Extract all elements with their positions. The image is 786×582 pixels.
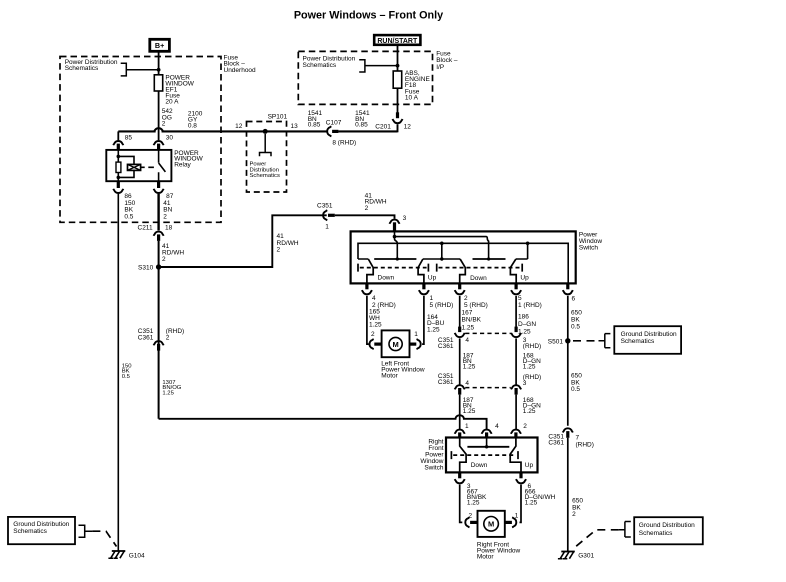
svg-text:5 (RHD): 5 (RHD) (430, 302, 454, 309)
power window switch box (351, 231, 576, 283)
switch pin 5 male pin (514, 283, 517, 289)
svg-text:Relay: Relay (174, 162, 191, 169)
svg-text:1.25: 1.25 (463, 364, 476, 371)
wire row2 down to RF switch pin 2 (515, 395, 517, 430)
wire C351 to switch pin 3 (335, 215, 395, 219)
wire row2 down to RF switch pin 1 (459, 395, 461, 430)
C351 male pin (328, 214, 335, 217)
LF down switch arm (pin 4) (367, 259, 373, 283)
wire label 666 D-GN/WH 1.25 (525, 489, 556, 507)
svg-text:1.25: 1.25 (525, 499, 538, 506)
relay pin 87 connector cup (154, 189, 164, 193)
svg-text:Ground Distribution: Ground Distribution (639, 522, 695, 529)
svg-text:167: 167 (462, 310, 473, 317)
svg-text:3: 3 (523, 380, 527, 387)
svg-text:1.25: 1.25 (523, 408, 536, 415)
svg-text:Schematics: Schematics (639, 530, 673, 537)
svg-text:1.25: 1.25 (369, 321, 382, 328)
svg-text:0.85: 0.85 (355, 122, 368, 129)
wire pin 2 down to C351 row1 (459, 296, 461, 327)
RF motor symbol (484, 517, 499, 532)
svg-text:BK: BK (571, 317, 580, 324)
svg-text:Ground Distribution: Ground Distribution (13, 521, 69, 528)
right front power window switch box (446, 438, 538, 473)
row1 C351 male pin (left) (458, 327, 461, 333)
right front power window motor label (477, 542, 521, 561)
wire B+ to fuse EF1 (158, 52, 160, 75)
C107 male pin (332, 130, 338, 133)
svg-text:C361: C361 (548, 440, 564, 447)
svg-text:Motor: Motor (381, 373, 398, 380)
wire RUN/START down to fuse F18 (397, 45, 399, 71)
wire pin 1 down to LF motor (422, 296, 424, 344)
wire label 667 BN/BK 1.25 (467, 489, 487, 507)
svg-text:C107: C107 (326, 119, 342, 126)
RF switch pin 1 connector cup (455, 430, 465, 434)
RF switch pin 3 connector cup (455, 479, 465, 483)
svg-text:13: 13 (291, 123, 299, 130)
C201 connector cup (393, 119, 403, 123)
wire pin 4 down to LF motor (367, 296, 369, 344)
C211 connector cup (154, 232, 164, 236)
label 1541 BN 0.85 (left of C107) (308, 110, 323, 129)
svg-text:1.25: 1.25 (462, 325, 475, 332)
row1 C351 male pin (right) (514, 327, 517, 333)
switch internal feed from pin 3 (394, 231, 396, 236)
relay pin 86 connector cup (113, 189, 123, 193)
wire label 41 RD/WH 2 (below C211) (162, 243, 184, 263)
right front power window switch label (420, 438, 444, 471)
wire C351 pin 7 down to G301 (567, 438, 569, 552)
label C351 C361 (1307 branch) (138, 328, 154, 341)
svg-text:7: 7 (576, 435, 580, 442)
relay pin 30 male pin (157, 144, 160, 150)
wire label 168 D-GN 1.25 (between rows) (523, 353, 541, 371)
power window switch label (579, 232, 602, 252)
relay feed horizontal wire (pin85 to C201) with hop over fuse wire (118, 128, 326, 131)
fuse block I/P label (436, 51, 458, 71)
fuse F18 label (405, 70, 431, 101)
contact bar 2 (473, 258, 506, 260)
svg-text:G301: G301 (578, 552, 594, 559)
wire C201 down to corner (397, 124, 399, 132)
wire label 164 D-BU 1.25 (427, 314, 445, 334)
C351/C361 male pin (1307 branch) (157, 344, 160, 351)
row2 male pin (left) (458, 388, 461, 395)
RF switch pin 4 connector cup (482, 430, 492, 434)
svg-text:S501: S501 (548, 338, 564, 345)
RF bar feed node (485, 445, 488, 448)
relay actuator dashed link (141, 166, 154, 168)
svg-text:1 (RHD): 1 (RHD) (518, 302, 542, 309)
power distribution schematics note (I/P) (303, 55, 356, 68)
C211 male pin (157, 234, 160, 241)
dashed leader G301 to ground distribution note (574, 530, 619, 548)
svg-text:1: 1 (465, 423, 469, 430)
label pin 5 / 1 (RHD) (518, 295, 542, 309)
svg-text:1: 1 (414, 331, 418, 338)
feed jog from pin3 node over ground bus to bar 1 (395, 237, 398, 259)
ground G301 symbol (558, 552, 575, 559)
fuse block underhood dashed box (60, 57, 221, 223)
label 1541 BN 0.85 (right of C107) (355, 110, 370, 129)
svg-text:Underhood: Underhood (224, 67, 257, 74)
row2 connector cup (left) (455, 385, 465, 389)
RF switch pin 6 male pin (519, 472, 522, 478)
wire C211 down through S310 to corner (158, 241, 160, 419)
relay coil branch junction nodes (117, 155, 121, 159)
junction node at PDS tap (157, 68, 161, 72)
relay pin 85 male pin (117, 144, 120, 150)
ground bus drops to switch pivots (442, 243, 528, 259)
C351/C361 connector cup (1307 branch) (154, 341, 164, 345)
dashed leader S501 to ground distribution note (573, 340, 599, 342)
switch pin 2 connector cup (455, 290, 465, 294)
RF switch pin 2 connector cup (511, 430, 521, 434)
LF motor pin 2 male pin (374, 343, 382, 346)
svg-text:Schematics: Schematics (303, 62, 337, 69)
left front power window motor label (381, 361, 425, 380)
fuse block I/P dashed box (298, 51, 432, 104)
svg-text:(RHD): (RHD) (523, 343, 541, 350)
RF motor pin 1 male pin (505, 521, 512, 524)
SP101 dashed box (247, 122, 287, 193)
wire label 41 RD/WH 2 (to switch pin 3) (365, 192, 387, 211)
wire pin 6 down through S501 to C351 pin 7 (567, 296, 569, 426)
svg-text:0.5: 0.5 (571, 324, 580, 331)
wire label 187 BN 1.25 (below row2) (463, 397, 476, 415)
C107 connector cup (327, 126, 331, 136)
wire label 650 BK 0.5 (above S501) (571, 310, 582, 331)
svg-text:4: 4 (465, 380, 469, 387)
wire label 168 D-GN 1.25 (below row2) (523, 397, 541, 415)
svg-text:C201: C201 (375, 123, 391, 130)
svg-text:Motor: Motor (477, 553, 494, 560)
svg-text:Schematics: Schematics (65, 65, 99, 72)
svg-text:0.8: 0.8 (188, 123, 197, 130)
wire label 1307 BN/OG 1.25 (162, 380, 181, 397)
svg-text:Schematics: Schematics (250, 173, 281, 179)
label C351 C361 (row2) (438, 373, 454, 386)
svg-text:2: 2 (277, 247, 281, 254)
svg-text:Down: Down (378, 274, 395, 281)
splice SP101 node (263, 129, 268, 134)
switch pin 1 male pin (422, 283, 425, 289)
svg-text:5: 5 (518, 295, 522, 302)
svg-text:Power Windows – Front Only: Power Windows – Front Only (294, 9, 443, 21)
svg-text:2: 2 (464, 295, 468, 302)
svg-text:S310: S310 (138, 265, 154, 272)
left front power window motor box (382, 330, 410, 357)
wire S310 branch right and up to C351 (159, 215, 327, 267)
svg-text:C361: C361 (438, 379, 454, 386)
switch pin 6 connector cup (563, 290, 573, 294)
svg-text:C351: C351 (317, 202, 333, 209)
relay coil branch wires (118, 150, 134, 181)
svg-text:Down: Down (470, 275, 487, 282)
svg-text:B+: B+ (155, 41, 164, 50)
wire corner down to relay pin 85 (117, 131, 119, 140)
LF motor pin 1 connector cup (417, 339, 421, 349)
wire relay pin 87 down to C211 (157, 194, 159, 231)
svg-text:186: 186 (518, 313, 529, 320)
label (RHD) 2 (1307 branch) (166, 328, 184, 341)
svg-text:1.25: 1.25 (427, 327, 440, 334)
fuse F18 symbol (393, 71, 402, 88)
switch pin 1 connector cup (419, 290, 429, 294)
relay suppression resistor (116, 162, 121, 172)
bracket to ground distribution note (G104) (79, 525, 93, 537)
wire label 542 OG 2 (162, 108, 173, 127)
fuse block underhood label (224, 54, 257, 73)
wire fuse EF1 down to relay pin 30 (158, 91, 160, 140)
svg-text:20 A: 20 A (165, 99, 179, 106)
RF switch pin 1 male pin (458, 432, 461, 438)
row2 connector dashed tie (465, 387, 511, 389)
switch pin 3 connector cup (390, 220, 400, 224)
svg-text:Schematics: Schematics (13, 528, 47, 535)
svg-text:10 A: 10 A (405, 94, 419, 101)
label C351 C361 (pin 7) (548, 433, 564, 446)
RF motor pin 2 connector cup (465, 517, 469, 527)
svg-text:2: 2 (166, 335, 170, 342)
svg-text:D–GN: D–GN (518, 321, 536, 328)
svg-text:M: M (392, 340, 398, 349)
svg-text:12: 12 (404, 124, 412, 131)
label 3 (RHD) (row1 right) (523, 337, 541, 350)
switch pin 2 male pin (458, 283, 461, 289)
label C351 C361 (row1) (438, 337, 454, 350)
wire label 165 WH 1.25 (369, 309, 382, 329)
svg-text:30: 30 (166, 135, 174, 142)
svg-text:2: 2 (572, 511, 576, 518)
LF motor pin 2 connector cup (369, 339, 373, 349)
relay pin 30 connector cup (154, 141, 164, 145)
ground G104 symbol (108, 551, 125, 558)
svg-text:1.25: 1.25 (523, 364, 536, 371)
wire label 150 BK 0.5 (left column) (122, 363, 133, 379)
junction node pin 3 bus (393, 235, 397, 239)
relay pin 87 male pin (157, 181, 160, 188)
svg-text:87: 87 (166, 193, 174, 200)
switch pin 5 connector cup (511, 290, 521, 294)
row1 connector dashed tie (465, 332, 511, 334)
svg-text:6: 6 (572, 296, 576, 303)
svg-text:SP101: SP101 (268, 114, 288, 121)
svg-text:4: 4 (495, 423, 499, 430)
svg-text:I/P: I/P (436, 64, 444, 71)
svg-text:BN: BN (163, 207, 172, 214)
svg-text:Schematics: Schematics (621, 338, 655, 345)
pivot junction node (440, 257, 443, 260)
wire label 41 BN 2 (pin 87) (163, 200, 172, 220)
ground distribution schematics box (G104) (8, 517, 75, 544)
C351/C361 male pin (pin 7) (566, 431, 569, 438)
RF switch pin 2 male pin (514, 432, 517, 438)
splice S310 node (156, 264, 161, 269)
svg-text:2: 2 (371, 331, 375, 338)
RF internal down arm (pin1 to pin3) (460, 438, 466, 473)
label pin 4 / 2 (RHD) (372, 295, 396, 309)
svg-text:Up: Up (525, 462, 534, 469)
C351 connector cup (323, 210, 327, 220)
RF down switch arm (pin 2) (460, 259, 466, 283)
svg-text:2: 2 (162, 120, 166, 127)
svg-text:1.25: 1.25 (162, 391, 174, 397)
feed drop to bar 2 (488, 243, 490, 259)
wire fuse F18 down to C201 (397, 88, 399, 112)
svg-text:C361: C361 (138, 335, 154, 342)
switch pin 3 male pin (393, 222, 396, 232)
RF motor pin 1 connector cup (512, 517, 516, 527)
power window relay box (106, 150, 171, 181)
svg-text:C211: C211 (138, 225, 153, 232)
contact bar 1 (374, 258, 416, 260)
ground bus junction nodes (440, 242, 444, 246)
dashed leader to G104 (92, 531, 116, 546)
bracket to ground distribution note (G301) (619, 522, 631, 538)
wire row1 to row2 (left) (459, 338, 461, 384)
wire row1 to row2 (right) (515, 338, 517, 384)
RF switch pin 4 male pin (485, 432, 488, 438)
wire label 187 BN 1.25 (between rows) (463, 353, 476, 371)
fuse EF1 symbol (154, 75, 162, 91)
bracket to power distribution note (I/P) (359, 60, 397, 72)
svg-text:3: 3 (403, 215, 407, 222)
fuse EF1 label (165, 75, 194, 106)
svg-text:C361: C361 (438, 343, 454, 350)
bracket to ground distribution note (S501) (599, 334, 611, 348)
svg-text:Up: Up (428, 274, 437, 281)
svg-text:85: 85 (125, 134, 133, 141)
svg-text:18: 18 (165, 225, 173, 232)
svg-text:M: M (488, 520, 494, 529)
LF motor symbol (389, 337, 402, 350)
internal feed bus (upper) to right contact bar (395, 237, 489, 244)
relay coil symbol (128, 164, 141, 170)
svg-text:0.85: 0.85 (308, 122, 321, 129)
svg-text:Switch: Switch (579, 244, 599, 251)
svg-text:Up: Up (520, 274, 529, 281)
RF switch pin 3 male pin (458, 472, 461, 478)
label 7 (RHD) (576, 435, 594, 449)
wire RF pin 6 down to RF motor (520, 485, 522, 523)
switch pin 4 connector cup (362, 290, 372, 294)
C201 male pin (396, 112, 399, 118)
wire label 2100 GY 0.8 (188, 111, 203, 130)
RF internal feed drop from pin 4 (486, 438, 488, 447)
wire label 41 RD/WH 2 (branch riser) (277, 233, 299, 253)
RF switch pin 6 connector cup (516, 479, 526, 483)
wire label 150 BK 0.5 (pin 86) (124, 200, 135, 220)
svg-text:1: 1 (430, 295, 434, 302)
svg-text:86: 86 (124, 193, 132, 200)
feed wire to RF switch pin 4 with hop over pin1 wire (159, 415, 487, 429)
wire pin 5 down to C351 row1 (515, 296, 517, 327)
row2 connector cup (right) (511, 385, 521, 389)
svg-text:BK: BK (124, 207, 133, 214)
svg-text:2: 2 (163, 214, 167, 221)
C351/C361 connector cup (pin 7) (563, 428, 573, 432)
svg-text:G104: G104 (129, 552, 145, 559)
label (RHD) 3 (above row2 right) (523, 374, 541, 387)
RF internal contact bar (467, 446, 509, 448)
wire C107 to C201 corner (338, 130, 397, 132)
svg-text:Down: Down (471, 462, 488, 469)
pivot rail segments (358, 258, 528, 260)
relay pin 85 connector cup (113, 141, 123, 145)
wire label 650 BK 0.5 (below S501) (571, 373, 582, 393)
LF motor pin 1 male pin (409, 343, 416, 346)
SP101 branch fork symbol (260, 134, 272, 156)
switch pin 4 male pin (365, 283, 368, 289)
B+ battery feed box (150, 39, 170, 51)
svg-text:2: 2 (365, 205, 369, 212)
linkage 1 dashed with end ticks (358, 264, 428, 272)
ground distribution schematics box (S501) (614, 326, 681, 354)
RF up switch arm (pin 5) (510, 259, 516, 283)
power distribution schematics note (underhood) (65, 59, 118, 72)
svg-text:12: 12 (235, 123, 243, 130)
svg-text:RUN/START: RUN/START (377, 38, 418, 45)
RF motor pin 2 male pin (470, 521, 478, 524)
ground distribution schematics box (G301) (634, 517, 703, 544)
wire label 167 BN/BK 1.25 (462, 310, 482, 332)
svg-text:5 (RHD): 5 (RHD) (464, 302, 488, 309)
bracket to power distribution note (underhood) (121, 63, 159, 76)
svg-text:2: 2 (469, 513, 473, 520)
svg-text:BN/BK: BN/BK (462, 317, 482, 324)
svg-text:1.25: 1.25 (463, 408, 476, 415)
power distribution schematics note (SP101) (250, 162, 281, 180)
svg-text:4: 4 (465, 337, 469, 344)
RF linkage dashed with end ticks (451, 451, 518, 459)
row1 C351 connector cup (right) (511, 333, 521, 337)
switch pin 6 male pin (566, 283, 569, 289)
junction node at I/P PDS tap (396, 64, 400, 68)
relay switch contact (159, 150, 166, 181)
switch internal ground bus (358, 243, 568, 283)
linkage 2 dashed with end ticks (437, 264, 523, 272)
svg-text:2: 2 (162, 256, 166, 263)
bar feed nodes (396, 257, 399, 260)
svg-text:0.5: 0.5 (571, 386, 580, 393)
RUN/START feed box (374, 35, 420, 45)
relay pin 86 male pin (117, 181, 120, 188)
LF up switch arm (pin 1) (418, 259, 424, 283)
label pin 2 / 5 (RHD) (464, 295, 488, 309)
svg-text:650: 650 (571, 310, 582, 317)
svg-text:1.25: 1.25 (467, 499, 480, 506)
right front power window motor box (478, 511, 505, 537)
wire relay pin 86 down to G104 (117, 194, 119, 551)
svg-text:(RHD): (RHD) (576, 442, 594, 449)
svg-text:2: 2 (523, 423, 527, 430)
wire label 186 D-GN 1.25 (518, 313, 536, 335)
svg-text:0.5: 0.5 (122, 374, 131, 380)
power window relay label (174, 150, 203, 169)
RF internal up arm (pin2 to pin6) (510, 438, 521, 473)
wire label 650 BK 2 (572, 498, 583, 519)
svg-text:1: 1 (515, 513, 519, 520)
wire RF pin 3 down to RF motor (460, 485, 463, 523)
row2 male pin (right) (514, 388, 517, 395)
svg-text:0.5: 0.5 (124, 214, 133, 221)
splice S501 node (565, 338, 570, 343)
label pin 1 / 5 (RHD) (430, 295, 454, 309)
svg-text:Switch: Switch (424, 464, 444, 471)
row1 C351 connector cup (left) (455, 333, 465, 337)
